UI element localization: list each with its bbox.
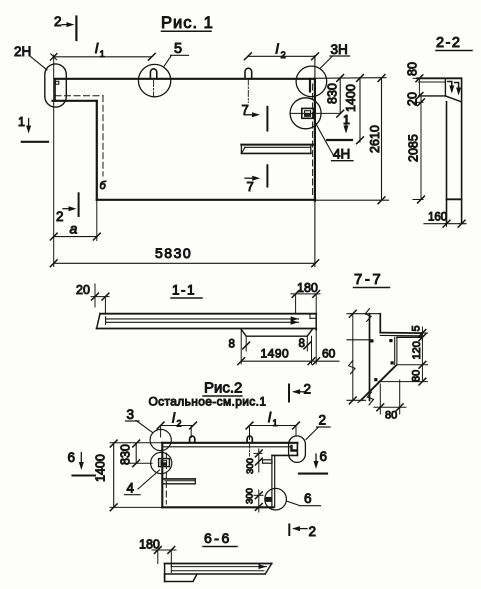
label 3 <box>126 407 153 433</box>
svg-text:1: 1 <box>100 49 105 60</box>
7-7 bottom dimension 80 <box>374 380 406 422</box>
dimension 180 (1-1 right) <box>291 281 320 314</box>
fig2 right strip <box>272 455 275 507</box>
svg-text:8: 8 <box>229 339 235 351</box>
svg-text:7: 7 <box>247 179 254 194</box>
7-7 wall faces <box>347 314 380 401</box>
7-7 dimension 5 <box>411 325 428 341</box>
7-7 left dimension line with break <box>349 310 357 403</box>
svg-text:l: l <box>95 40 99 56</box>
svg-text:3: 3 <box>127 407 135 422</box>
7-7 top break line <box>347 309 380 322</box>
lifting loop 1 <box>150 69 156 97</box>
svg-text:Рис. 1: Рис. 1 <box>161 14 214 32</box>
dimension 8 (right) <box>299 336 311 351</box>
detail circle 3Н <box>296 66 327 97</box>
title 7-7 <box>354 271 390 288</box>
beam outline 1-1 <box>97 314 317 330</box>
2-2 dimension 160 <box>424 199 466 227</box>
svg-text:2: 2 <box>281 50 286 61</box>
svg-text:2: 2 <box>177 419 182 429</box>
svg-text:5: 5 <box>174 41 182 57</box>
svg-text:3Н: 3Н <box>331 42 348 57</box>
svg-text:180: 180 <box>139 538 160 552</box>
svg-text:2610: 2610 <box>368 125 382 153</box>
detail circle 4Н with embedded plate <box>290 98 321 129</box>
2-2 dimension 80 <box>406 62 423 99</box>
svg-text:l: l <box>276 41 280 57</box>
dimension 1490 and 60 <box>238 330 339 365</box>
detail circle 4 (fig2 lower) <box>151 452 172 473</box>
fig2 dimension 1400 <box>94 440 163 511</box>
svg-text:2: 2 <box>304 382 312 397</box>
svg-text:5830: 5830 <box>155 245 192 261</box>
svg-text:60: 60 <box>322 347 336 361</box>
svg-text:80: 80 <box>410 370 422 382</box>
svg-text:4: 4 <box>127 481 135 496</box>
svg-text:830: 830 <box>119 444 133 465</box>
panel bottom edge <box>97 199 389 202</box>
top reference extension line <box>314 77 386 80</box>
left axis line <box>51 54 57 267</box>
section marker 2 (bottom) <box>56 193 79 224</box>
svg-text:4Н: 4Н <box>333 147 350 162</box>
title 1-1 <box>171 283 202 299</box>
fig2 weld plates on strip <box>263 460 273 502</box>
svg-text:830: 830 <box>326 83 340 104</box>
svg-text:160: 160 <box>428 212 447 224</box>
fig2 dimension 300 (top) <box>245 449 262 474</box>
title Рис.1 <box>161 14 214 32</box>
svg-text:2: 2 <box>54 14 62 29</box>
section view 2-2: title <box>436 35 472 51</box>
svg-text:300: 300 <box>245 458 256 474</box>
svg-text:l: l <box>268 410 272 425</box>
svg-text:б: б <box>100 180 107 192</box>
plate reference line <box>291 112 339 114</box>
section marker 7 (bottom) <box>245 165 267 194</box>
detail circle 3 (fig2 top) <box>150 429 171 450</box>
fig2 left edge <box>162 443 166 508</box>
fig2 dimension 300 (bottom) <box>244 488 263 512</box>
svg-text:6: 6 <box>320 449 328 464</box>
2-2 anchor loops in section <box>448 82 461 96</box>
label 2Н <box>14 44 47 70</box>
section marker 2 (top) <box>54 14 76 40</box>
svg-text:2: 2 <box>319 413 327 428</box>
6-6 inner lines <box>171 564 266 572</box>
fig2 dimension l1 <box>246 410 299 440</box>
svg-text:6: 6 <box>304 491 312 506</box>
hidden dashed line horizontal <box>55 95 103 97</box>
fig2 panel top chord <box>162 443 297 447</box>
svg-text:80: 80 <box>406 62 420 76</box>
section marker 6 (right) <box>299 449 327 474</box>
svg-text:7-7: 7-7 <box>354 271 383 288</box>
section marker 7 (top) <box>242 102 268 131</box>
svg-text:2Н: 2Н <box>14 44 31 59</box>
svg-text:Остальное-см.рис.1: Остальное-см.рис.1 <box>149 395 267 409</box>
7-7 haunch diagonals <box>358 365 397 405</box>
svg-text:1490: 1490 <box>261 347 290 361</box>
svg-text:300: 300 <box>244 488 255 504</box>
fig2 right end face with 2Н mark <box>272 443 297 456</box>
svg-text:1: 1 <box>18 115 25 129</box>
2-2 shelf tip and underside <box>419 78 462 102</box>
fig2 dimension 830 <box>119 440 153 467</box>
section marker 2 (bottom near 6-6) <box>289 524 316 539</box>
detail circle 5 <box>138 64 170 96</box>
svg-text:2: 2 <box>56 209 64 224</box>
label 4Н <box>316 124 353 162</box>
hidden dashed right edge <box>312 84 314 197</box>
dimension l1 <box>54 40 156 60</box>
svg-text:2-2: 2-2 <box>436 35 461 51</box>
panel right edge <box>314 56 316 267</box>
detail circle 6 <box>265 488 287 510</box>
section marker 1 (left) <box>18 115 48 142</box>
chord bottom edge and corner <box>53 101 97 200</box>
dimension l2 <box>245 41 319 62</box>
dimension 20 (1-1 left) <box>76 283 109 314</box>
svg-text:2: 2 <box>309 524 317 539</box>
svg-text:2085: 2085 <box>407 134 421 162</box>
shelf console Рис.1 <box>241 145 313 154</box>
dimension 5830 <box>50 245 318 267</box>
fig2 lifting loops <box>190 436 253 456</box>
beam inner lines 1-1 <box>106 316 299 324</box>
svg-text:1: 1 <box>273 418 278 428</box>
dimension 1400 <box>344 75 363 144</box>
label 2 (fig2 oval) <box>306 413 330 440</box>
svg-text:80: 80 <box>385 410 397 422</box>
7-7 bottom break line <box>347 399 366 401</box>
dimension 830 <box>326 75 344 118</box>
7-7 dimension 80 <box>379 365 428 385</box>
svg-text:l: l <box>172 411 176 426</box>
subtitle Остальное <box>149 395 267 409</box>
svg-text:20: 20 <box>406 92 420 106</box>
svg-text:120: 120 <box>411 341 423 359</box>
title 6-6 <box>203 530 237 547</box>
detail oval 2Н <box>45 64 67 107</box>
7-7 rebar dots <box>370 339 393 381</box>
dimension 8 (left) <box>229 336 250 351</box>
label 5 <box>164 41 189 67</box>
svg-text:180: 180 <box>297 281 318 295</box>
dimension a <box>50 200 100 241</box>
svg-text:5: 5 <box>411 325 423 331</box>
panel left end face with 2Н notch <box>55 79 59 101</box>
section marker 1 (right) <box>327 113 352 140</box>
2-2 dimension 20 <box>406 92 425 106</box>
7-7 dimension 120 <box>397 337 428 368</box>
fig2 dimension l2 <box>157 411 196 438</box>
svg-text:6: 6 <box>68 450 76 465</box>
2-2 panel faces <box>447 78 462 223</box>
bottom groove 1-1 <box>241 329 312 336</box>
fig2 bottom edge <box>162 506 273 508</box>
svg-text:1400: 1400 <box>344 84 358 112</box>
svg-text:6-6: 6-6 <box>204 530 232 546</box>
svg-text:1-1: 1-1 <box>172 283 196 298</box>
7-7 shelf <box>380 333 421 365</box>
2-2 dimension 2085 <box>407 102 425 203</box>
svg-text:a: a <box>70 221 78 237</box>
dimension 2610 <box>368 75 385 204</box>
svg-text:20: 20 <box>76 283 90 297</box>
fig2 embedded plate (detail 4) <box>159 459 170 467</box>
6-6 bar outline <box>165 564 272 582</box>
panel top chord <box>55 78 314 80</box>
label 3Н <box>321 42 350 68</box>
label 4 <box>125 470 160 496</box>
detail oval 2 (fig2) <box>289 436 306 463</box>
section marker 2 (fig2 top right) <box>289 382 311 402</box>
6-6 bottom left console <box>165 574 197 582</box>
title Рис.2 <box>203 380 242 397</box>
dimension 180 (6-6) <box>139 538 176 567</box>
svg-text:1400: 1400 <box>94 454 108 482</box>
section marker 6 (left) <box>68 450 96 476</box>
2-2 top edge <box>417 78 462 82</box>
lifting loop 2 <box>245 68 252 102</box>
hidden dashed line vertical with б <box>100 96 107 192</box>
label 6 (circle) <box>287 491 321 506</box>
fig2 shelf <box>164 479 196 484</box>
